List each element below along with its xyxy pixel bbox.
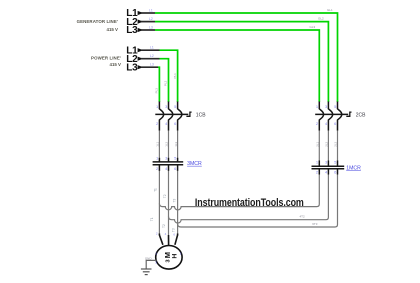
svg-text:L3: L3 bbox=[150, 63, 154, 67]
svg-text:T3: T3 bbox=[171, 228, 175, 232]
wire 3MCR down to motor (T1) bbox=[158, 171, 160, 234]
svg-text:1CB: 1CB bbox=[196, 113, 206, 119]
node L2 generator bbox=[126, 17, 155, 28]
2CB pin numbers bottom bbox=[316, 121, 337, 126]
motor lead T3 bbox=[175, 234, 178, 245]
svg-text:T2: T2 bbox=[163, 194, 167, 198]
1CB pole 3 bbox=[178, 102, 182, 131]
wire generator L2 (green) bbox=[155, 22, 328, 102]
ground bbox=[141, 269, 152, 275]
1CB pin numbers top bbox=[156, 104, 177, 109]
svg-text:1L1: 1L1 bbox=[156, 141, 160, 146]
svg-text:PL3: PL3 bbox=[155, 88, 159, 94]
wire power L2 (green) bbox=[160, 59, 169, 102]
node L3 power bbox=[126, 62, 158, 73]
ground wire bbox=[146, 260, 156, 268]
svg-text:GND: GND bbox=[145, 256, 153, 260]
circuit breaker 1CB bbox=[155, 102, 191, 131]
svg-text:L1: L1 bbox=[149, 8, 153, 12]
svg-text:L3: L3 bbox=[149, 25, 153, 29]
svg-text:1MCR: 1MCR bbox=[346, 165, 361, 171]
svg-text:PL1: PL1 bbox=[173, 73, 177, 79]
svg-text:1L3: 1L3 bbox=[174, 141, 178, 146]
svg-text:1L2: 1L2 bbox=[165, 141, 169, 146]
svg-text:4T2: 4T2 bbox=[300, 214, 306, 218]
wire 1MCR pole2 to node T2 (line2 with hop) bbox=[169, 175, 329, 223]
1CB pin numbers bottom bbox=[156, 121, 177, 126]
contactor 1MCR bbox=[312, 161, 345, 175]
wire 2CB to 1MCR (3 segments) bbox=[319, 131, 337, 161]
svg-text:PL2: PL2 bbox=[164, 80, 168, 86]
1CB crossbar bbox=[155, 113, 188, 115]
wire generator L3 (green) bbox=[155, 30, 319, 102]
circuit breaker 2CB bbox=[315, 102, 351, 131]
svg-text:T1: T1 bbox=[154, 188, 158, 192]
node L3 generator bbox=[126, 25, 155, 36]
motor terminal pins (blue) bbox=[156, 232, 175, 237]
1MCR pole stubs bottom bbox=[318, 169, 320, 175]
3MCR pin numbers top bbox=[156, 155, 177, 160]
svg-text:L2: L2 bbox=[150, 54, 154, 58]
wire 1CB to 3MCR (3 segments) bbox=[159, 131, 177, 158]
1CB pole 1 bbox=[159, 102, 163, 131]
svg-text:2CB: 2CB bbox=[356, 113, 366, 119]
wire 1MCR pole3 to node T3 (line3) bbox=[178, 175, 338, 228]
3MCR pin numbers bottom bbox=[156, 166, 177, 171]
1CB handle bbox=[186, 112, 191, 116]
1MCR pin numbers top bbox=[316, 160, 337, 165]
3MCR pole stubs top bbox=[158, 158, 160, 162]
svg-text:GL1: GL1 bbox=[327, 8, 333, 12]
svg-text:GL3: GL3 bbox=[310, 25, 316, 29]
svg-text:415 V: 415 V bbox=[110, 62, 122, 67]
svg-text:L1: L1 bbox=[150, 46, 154, 50]
motor M bbox=[156, 245, 182, 269]
2CB crossbar bbox=[315, 113, 348, 115]
svg-text:GL2: GL2 bbox=[318, 17, 324, 21]
svg-text:L3: L3 bbox=[126, 25, 138, 36]
svg-text:6T3: 6T3 bbox=[312, 222, 318, 226]
svg-text:L2: L2 bbox=[149, 17, 153, 21]
wire generator L1 (green) bbox=[155, 13, 338, 102]
power line source label bbox=[91, 55, 121, 67]
2CB pin numbers top bbox=[316, 104, 337, 109]
svg-text:L3: L3 bbox=[126, 62, 138, 73]
svg-text:2L1: 2L1 bbox=[316, 141, 320, 146]
3MCR contact bars bbox=[153, 161, 184, 163]
svg-text:2L3: 2L3 bbox=[334, 141, 338, 146]
2CB pole 2 bbox=[328, 102, 332, 131]
2CB handle bbox=[346, 112, 351, 116]
svg-text:415 V: 415 V bbox=[107, 27, 119, 32]
svg-text:POWER LINE': POWER LINE' bbox=[91, 55, 121, 60]
svg-text:3MCR: 3MCR bbox=[187, 161, 202, 167]
svg-text:GENERATOR LINE': GENERATOR LINE' bbox=[77, 19, 118, 24]
wire power L3 (green) bbox=[158, 67, 159, 102]
node L2 power bbox=[126, 54, 159, 65]
svg-text:H: H bbox=[172, 254, 179, 259]
svg-text:T3: T3 bbox=[172, 199, 176, 203]
svg-text:2L2: 2L2 bbox=[325, 141, 329, 146]
1CB pole 2 bbox=[169, 102, 173, 131]
motor lead T2 bbox=[168, 235, 170, 245]
wire power L1 (green) bbox=[160, 50, 178, 102]
svg-text:T2: T2 bbox=[162, 224, 166, 228]
1MCR pin numbers bottom bbox=[316, 170, 337, 175]
svg-text:T1: T1 bbox=[150, 217, 154, 221]
generator line source label bbox=[77, 19, 118, 32]
contactor 3MCR bbox=[153, 158, 184, 171]
wire 3MCR down to motor (T2) bbox=[168, 171, 170, 235]
wire 1MCR pole1 to node T1 (line1 with hops) bbox=[159, 175, 319, 210]
2CB pole 1 bbox=[319, 102, 323, 131]
svg-text:InstrumentationTools.com: InstrumentationTools.com bbox=[195, 197, 304, 209]
motor lead T1 bbox=[159, 234, 163, 245]
2CB pole 3 bbox=[338, 102, 342, 131]
node L1 generator bbox=[126, 8, 155, 19]
1MCR contact bars bbox=[312, 165, 345, 167]
3MCR pole stubs bottom bbox=[158, 165, 160, 171]
node L1 power bbox=[126, 45, 159, 56]
wire 3MCR down to motor (T3) bbox=[177, 171, 179, 234]
1MCR pole stubs top bbox=[318, 161, 320, 167]
